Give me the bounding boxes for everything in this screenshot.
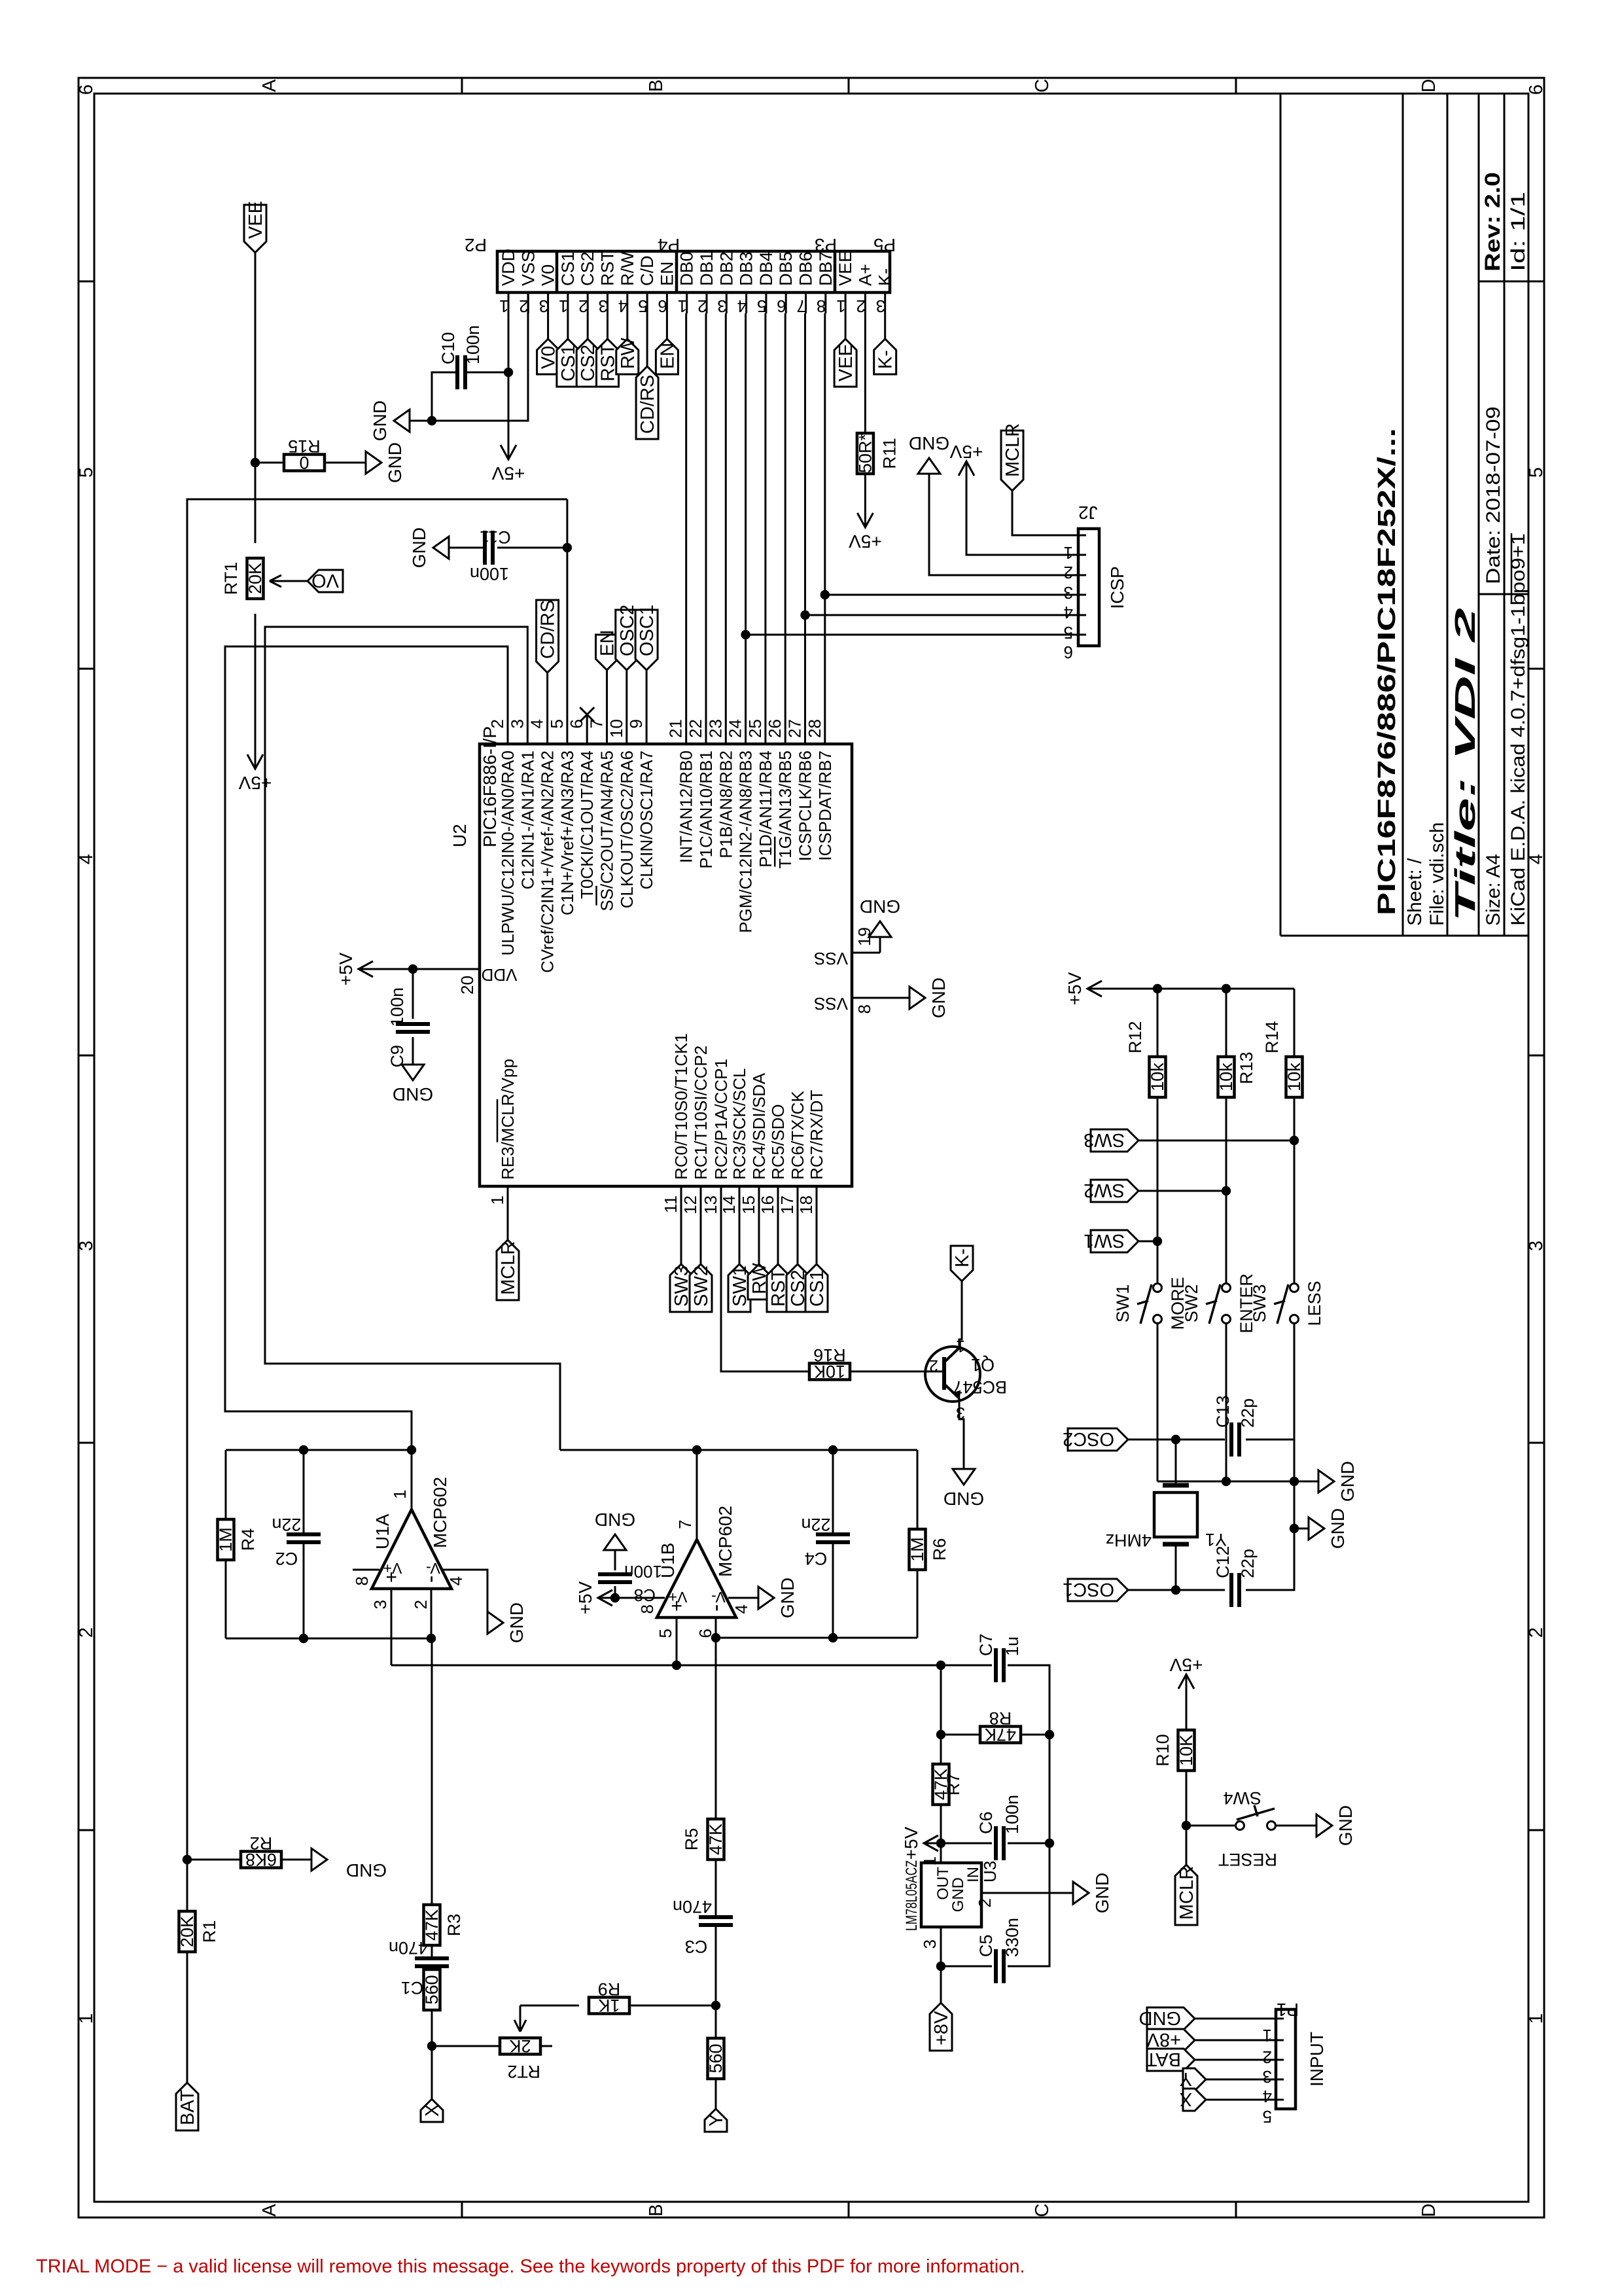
junction reset node	[1182, 1821, 1191, 1830]
resistor R11 50R*	[857, 433, 873, 474]
svg-text:C2: C2	[275, 1549, 298, 1568]
svg-text:GND: GND	[346, 1860, 387, 1881]
wire R3 to C1	[431, 1945, 433, 1957]
ground left of C9	[402, 1065, 424, 1080]
U1A pin 4 V- stub	[443, 1569, 471, 1571]
svg-text:GND: GND	[506, 1602, 527, 1643]
connector pin VDD stub	[508, 292, 510, 313]
U2 pin 11 stub	[680, 1186, 682, 1216]
junction VDD/C9	[408, 964, 417, 974]
V0 global label	[537, 339, 559, 374]
svg-text:MCLR: MCLR	[498, 1241, 519, 1295]
svg-text:SW2: SW2	[1182, 1284, 1201, 1323]
svg-text:22p: 22p	[1238, 1398, 1258, 1428]
U2 pin 28 stub	[824, 715, 826, 744]
resistor R15	[284, 455, 325, 471]
U2 pin 13 stub	[720, 1186, 722, 1216]
wire RA2 to CD/RS flag	[546, 673, 548, 715]
svg-text:1: 1	[1263, 2026, 1272, 2045]
svg-text:SW1: SW1	[1084, 1230, 1125, 1251]
junction OSC1/Y1/C12	[1171, 1585, 1180, 1595]
RW global label at U2 RC4	[748, 1264, 770, 1299]
wire junction to 560 (Y)	[715, 2005, 717, 2038]
svg-text:47K: 47K	[422, 1909, 442, 1941]
RST global label at U2 RC5	[767, 1264, 789, 1312]
svg-text:24: 24	[726, 719, 745, 738]
svg-text:Title: VDI 2: Title: VDI 2	[1449, 607, 1481, 922]
wire R5 to C3	[715, 1860, 717, 1916]
SW2 global label	[1138, 1190, 1226, 1192]
junction R8 bottom	[1045, 1730, 1054, 1739]
svg-text:2: 2	[856, 296, 865, 316]
svg-text:C4: C4	[805, 1549, 828, 1568]
CD/RS global label at U2	[537, 600, 559, 673]
RT2 wiper arrow	[514, 2005, 526, 2032]
ground above VSS stub	[394, 410, 410, 432]
svg-text:RE3/MCLR/Vpp: RE3/MCLR/Vpp	[498, 1059, 518, 1180]
svg-text:CD/RS: CD/RS	[538, 600, 559, 659]
junction VREF at divider	[936, 1661, 945, 1670]
wire C9 branch	[412, 969, 414, 1019]
svg-text:P1B/AN8/RB2: P1B/AN8/RB2	[716, 751, 735, 858]
OSC1 global label at crystal	[1068, 1579, 1128, 1601]
BAT global label	[176, 2083, 198, 2130]
svg-text:V-: V-	[711, 1589, 726, 1606]
svg-text:DB1: DB1	[697, 251, 716, 286]
svg-text:A+: A+	[855, 264, 875, 286]
title block kicad version overline	[1511, 533, 1513, 603]
wire R10 to MCLR junction	[1186, 1771, 1188, 1826]
ground stub wire at display VSS	[410, 292, 528, 421]
svg-text:GND: GND	[860, 896, 900, 917]
junction X node	[427, 2041, 436, 2051]
connector pin K- stub	[884, 292, 886, 313]
junction R12 feed	[1153, 984, 1162, 993]
wire RB3 to DB3	[745, 313, 747, 715]
svg-text:VDD: VDD	[499, 249, 518, 286]
connector pin DB6 stub	[805, 292, 807, 313]
svg-text:J2: J2	[1078, 503, 1098, 523]
svg-text:V+: V+	[383, 1560, 402, 1577]
junction C2 at minus rail	[299, 1634, 308, 1643]
U1A pin 8 V+ stub	[353, 1569, 379, 1571]
trimmer RT1 wire from junction	[255, 463, 256, 543]
Y global label at P1	[1183, 2068, 1206, 2091]
svg-text:10: 10	[607, 719, 626, 738]
CS1 global label at U2 RC7	[805, 1264, 828, 1312]
wire R11 to +5V	[864, 474, 866, 510]
svg-text:1: 1	[499, 296, 508, 316]
VEE global label (contrast)	[244, 205, 266, 253]
svg-text:K-: K-	[875, 268, 895, 286]
svg-text:EN: EN	[657, 261, 677, 286]
svg-text:4: 4	[446, 1576, 466, 1585]
RW global label	[616, 339, 639, 374]
svg-text:P1C/AN10/RB1: P1C/AN10/RB1	[696, 751, 716, 869]
SW2 wire row	[1225, 1097, 1227, 1283]
connector pin A+ stub	[864, 292, 866, 313]
svg-text:CLKIN/OSC1/RA7: CLKIN/OSC1/RA7	[637, 751, 656, 889]
resistor 560 (X)	[424, 1969, 440, 2010]
K- global label at connector	[874, 339, 896, 374]
wire C1 to 560 resistor	[431, 1966, 433, 1969]
P1 pin 3 stub	[1275, 2059, 1284, 2061]
svg-text:D: D	[1419, 2204, 1439, 2217]
SW3 global label at U2 RC0	[670, 1264, 692, 1312]
wire RC2 to R16	[721, 1216, 809, 1371]
svg-text:MCLR: MCLR	[1176, 1866, 1197, 1920]
svg-text:28: 28	[805, 719, 824, 738]
svg-text:ULPWU/C12IN0-/AN0/RA0: ULPWU/C12IN0-/AN0/RA0	[498, 751, 518, 956]
svg-text:CLKOUT/OSC2/RA6: CLKOUT/OSC2/RA6	[617, 751, 637, 908]
wire J2 pin3 to GND	[929, 474, 1078, 575]
svg-text:V+: V+	[669, 1589, 688, 1606]
svg-text:+5V: +5V	[491, 463, 525, 484]
switch SW2 ENTER	[1222, 1284, 1231, 1292]
svg-text:R16: R16	[813, 1345, 846, 1365]
wire RA6 to OSC2 flag	[626, 670, 627, 715]
svg-text:P5: P5	[873, 235, 896, 255]
svg-text:+5V: +5V	[949, 442, 983, 462]
svg-text:100n: 100n	[387, 987, 407, 1027]
svg-text:Q1: Q1	[971, 1355, 995, 1375]
svg-text:+5V: +5V	[575, 1581, 595, 1614]
svg-text:560: 560	[422, 1975, 442, 2004]
svg-text:3: 3	[1064, 583, 1073, 603]
P1 pin 5 stub	[1275, 2099, 1284, 2101]
svg-text:4: 4	[732, 1604, 751, 1614]
svg-text:R/W: R/W	[618, 251, 637, 286]
U2 pin 24 stub	[745, 715, 747, 744]
svg-text:22n: 22n	[801, 1515, 830, 1534]
junction C6 top	[936, 1839, 945, 1848]
wire R1 to BAT flag	[186, 1952, 188, 2083]
svg-text:R15: R15	[288, 436, 321, 456]
wire RA3 net riser	[187, 499, 567, 1860]
svg-text:13: 13	[701, 1195, 720, 1214]
svg-text:R1: R1	[200, 1920, 219, 1943]
junction U1A output node	[407, 1445, 416, 1455]
+5V at R11	[864, 510, 866, 527]
resistor R5 47K	[708, 1819, 724, 1860]
svg-text:U1A: U1A	[372, 1513, 393, 1549]
svg-text:C12: C12	[1213, 1545, 1233, 1578]
svg-text:4: 4	[737, 296, 747, 316]
wire X junction to RT2	[432, 2045, 500, 2047]
wire +5V to R10	[1186, 1691, 1188, 1729]
junction C11 on RA3 wire	[563, 543, 572, 552]
wire VSS19 to GND	[879, 937, 881, 953]
svg-text:DB6: DB6	[796, 251, 816, 286]
U2 pin 1 stub	[507, 1186, 509, 1216]
svg-text:VSS: VSS	[814, 994, 848, 1014]
capacitor C9 100n	[396, 1030, 430, 1034]
svg-text:C11: C11	[480, 527, 511, 547]
BAT global label at P1	[1147, 2049, 1195, 2071]
svg-text:4MHz: 4MHz	[1105, 1530, 1152, 1550]
svg-text:10k: 10k	[1284, 1063, 1304, 1091]
regulator U3 LM78L05ACZ box	[921, 1863, 981, 1927]
capacitor C10 100n	[467, 372, 508, 374]
svg-text:Size: A4: Size: A4	[1483, 854, 1504, 926]
svg-text:6: 6	[658, 296, 667, 316]
ground right of C8	[604, 1534, 626, 1550]
U2 pin 2 stub	[507, 715, 509, 744]
wire C11 to GND	[433, 547, 485, 549]
svg-text:RC7/RX/DT: RC7/RX/DT	[807, 1090, 826, 1180]
U2 pin 6 stub	[586, 715, 588, 744]
junction C5	[936, 1962, 945, 1971]
svg-text:3: 3	[1526, 1241, 1547, 1251]
junction R8 top	[936, 1730, 945, 1739]
svg-text:CS1: CS1	[807, 1270, 828, 1307]
connector pin DB5 stub	[785, 292, 787, 313]
J2 pin 6 stub	[1077, 634, 1086, 636]
junction VEE/R15/RT1	[251, 458, 260, 467]
svg-text:BAT: BAT	[177, 2089, 198, 2125]
svg-text:47K: 47K	[706, 1824, 726, 1855]
capacitor C2 22n	[303, 1542, 305, 1638]
wire R16 to Q1 base	[850, 1371, 943, 1373]
svg-text:3: 3	[920, 1939, 940, 1949]
U1B pin 7 output wire	[696, 1450, 698, 1540]
wire V0 pin to flag	[547, 313, 549, 339]
svg-text:+5V: +5V	[238, 773, 272, 793]
svg-text:A: A	[259, 79, 280, 92]
wire VDD pin to +5V	[508, 292, 510, 459]
ground for switches	[1318, 1470, 1334, 1492]
U2 pin 10 stub	[626, 715, 627, 744]
wire U1A pin4 to GND	[471, 1570, 487, 1623]
junction battery divider	[183, 1855, 192, 1864]
svg-text:C6: C6	[976, 1811, 996, 1834]
svg-text:B: B	[646, 2204, 667, 2216]
J2 pin 4 stub	[1077, 594, 1086, 596]
ground below R15	[366, 451, 381, 474]
wire VDD to +5V	[376, 968, 450, 970]
wire RB0 to DB0	[685, 313, 687, 715]
wire C3 to junction	[715, 1925, 717, 2005]
svg-text:R7: R7	[943, 1773, 963, 1796]
svg-text:3: 3	[76, 1241, 97, 1251]
switch SW3 LESS	[1290, 1284, 1299, 1292]
connector pin VSS stub	[527, 292, 529, 313]
svg-text:3: 3	[717, 296, 726, 316]
op-amp U1B triangle	[657, 1540, 736, 1617]
U2 pin 26 stub	[785, 715, 786, 744]
ground right of VSS pin19	[869, 921, 891, 937]
svg-text:D: D	[1419, 79, 1439, 93]
svg-text:DB2: DB2	[716, 251, 736, 286]
junction ICSPCLK tap on RB6	[800, 610, 809, 620]
wire RT1 to +5V	[255, 614, 256, 752]
svg-text:100n: 100n	[463, 325, 483, 364]
svg-text:C1: C1	[401, 1978, 424, 1998]
svg-text:GND: GND	[409, 527, 429, 568]
EN global label at connector	[656, 339, 678, 374]
ground above C11	[433, 537, 449, 559]
svg-text:2: 2	[697, 296, 707, 316]
svg-text:26: 26	[765, 719, 785, 738]
svg-text:3: 3	[370, 1600, 390, 1609]
svg-text:2: 2	[519, 296, 528, 316]
junction PGM tap on RB3	[741, 630, 750, 639]
svg-text:R10: R10	[1153, 1734, 1172, 1767]
svg-text:RESET: RESET	[1218, 1850, 1277, 1869]
svg-text:6: 6	[777, 296, 786, 316]
svg-text:1: 1	[678, 296, 687, 316]
resistor R2 6K8	[241, 1852, 281, 1868]
wire junction to SW4	[1186, 1825, 1235, 1827]
SW1 global label	[1138, 1241, 1157, 1243]
wire to crystal ground	[1294, 1528, 1309, 1530]
svg-text:SW1: SW1	[1113, 1284, 1133, 1323]
IC U2 box	[480, 744, 852, 1186]
PDF trial watermark text	[36, 2256, 1025, 2278]
CD/RS global label at connector	[636, 366, 658, 439]
svg-text:V0: V0	[538, 264, 558, 286]
ground below VSS pin8	[909, 987, 925, 1009]
wire RB1 to DB1	[705, 313, 707, 715]
svg-text:560: 560	[706, 2043, 726, 2073]
wire R15 to GND	[325, 462, 366, 464]
svg-text:Y: Y	[1180, 2068, 1192, 2089]
+5V above U2 VDD	[359, 968, 376, 970]
svg-text:File: vdi.sch: File: vdi.sch	[1426, 822, 1448, 926]
svg-text:C: C	[1032, 2204, 1053, 2217]
wire P1 pin1 to GND flag	[1195, 2018, 1276, 2020]
U2 pin 6 no-connect cross	[580, 707, 594, 722]
junction R13 feed	[1222, 984, 1231, 993]
trimmer RT2 2K	[500, 2038, 540, 2055]
capacitor C12 22p	[1176, 1589, 1225, 1591]
wire RC pin 18 to CS1 flag	[816, 1216, 818, 1264]
svg-text:GND: GND	[1092, 1873, 1112, 1913]
U2 pin 9 stub	[646, 715, 648, 744]
svg-text:C1N+/Vref+/AN3/RA3: C1N+/Vref+/AN3/RA3	[557, 751, 577, 915]
svg-text:100n: 100n	[470, 564, 509, 584]
capacitor C6 100n branch	[941, 1843, 992, 1845]
+5V at ICSP	[966, 461, 968, 478]
svg-text:16: 16	[758, 1195, 777, 1214]
U2 pin 22 stub	[705, 715, 707, 744]
svg-text:7: 7	[675, 1520, 695, 1529]
svg-text:14: 14	[719, 1195, 739, 1214]
svg-text:SW4: SW4	[1223, 1788, 1261, 1808]
svg-text:2: 2	[975, 1898, 995, 1907]
wire OSC2 flag to junction	[1128, 1439, 1176, 1441]
svg-text:2: 2	[929, 1356, 938, 1375]
svg-text:R13: R13	[1237, 1051, 1256, 1084]
RT1 wiper arrow	[270, 575, 308, 587]
wire R2 to GND	[281, 1859, 327, 1861]
svg-text:11: 11	[661, 1195, 680, 1213]
Y chain wire from minus rail	[715, 1638, 717, 1856]
svg-text:SS/C2OUT/AN4/RA5: SS/C2OUT/AN4/RA5	[597, 751, 617, 911]
svg-text:R11: R11	[879, 438, 899, 469]
wire RC pin 14 to SW1 flag	[739, 1216, 741, 1264]
U2 pin 7 stub	[606, 715, 608, 744]
svg-text:470n: 470n	[673, 1897, 712, 1916]
transistor Q1 BC547	[925, 1347, 980, 1402]
svg-text:4: 4	[1263, 2087, 1272, 2106]
junction ICSPDAT tap on RB7	[820, 590, 830, 599]
svg-text:1: 1	[487, 1195, 507, 1205]
svg-text:C8: C8	[634, 1585, 656, 1605]
svg-text:BC547: BC547	[953, 1377, 1007, 1397]
svg-text:8: 8	[352, 1576, 372, 1585]
Y global label	[705, 2109, 727, 2132]
U3 pin 3 IN wire	[940, 1927, 942, 2003]
svg-text:SW3: SW3	[1084, 1129, 1125, 1150]
U1A pin 2 wire	[431, 1589, 432, 1638]
junction SW3 label tap	[1290, 1136, 1299, 1145]
junction R9 at Y chain	[711, 2001, 720, 2010]
svg-text:R9: R9	[598, 1979, 621, 1999]
P1 pin 1 stub	[1275, 2018, 1284, 2020]
svg-text:B: B	[646, 79, 667, 92]
ground stub below regulator	[1049, 1892, 1073, 1894]
svg-text:GND: GND	[370, 400, 390, 441]
svg-text:CVref/C2IN1+/Vref-/AN2/RA2: CVref/C2IN1+/Vref-/AN2/RA2	[538, 751, 557, 973]
svg-text:3: 3	[539, 296, 548, 316]
svg-text:5: 5	[76, 467, 97, 478]
capacitor C11 100n branch	[497, 547, 567, 549]
svg-text:C7: C7	[976, 1633, 996, 1656]
svg-text:C3: C3	[685, 1937, 708, 1956]
svg-text:VEE: VEE	[836, 251, 855, 286]
svg-text:25: 25	[745, 719, 765, 738]
resistor R10 10K	[1178, 1730, 1195, 1771]
resistor R4 1M	[225, 1560, 227, 1638]
svg-text:1: 1	[1064, 543, 1073, 563]
svg-text:4: 4	[527, 719, 547, 728]
svg-text:6: 6	[76, 84, 97, 95]
capacitor C8 100n branch	[614, 1586, 616, 1598]
svg-text:GND: GND	[1328, 1508, 1348, 1549]
capacitor C3 470n	[699, 1923, 733, 1927]
J2 pin 1 stub	[1077, 535, 1086, 537]
CS2 global label	[576, 339, 599, 387]
svg-text:GND: GND	[385, 442, 405, 483]
U2 pin 23 stub	[725, 715, 727, 744]
svg-text:C: C	[1032, 79, 1053, 93]
svg-text:GND: GND	[1335, 1805, 1356, 1846]
svg-text:5: 5	[1064, 623, 1073, 643]
wire CS1 pin to flag	[567, 313, 569, 339]
svg-text:PIC16F886-I/P: PIC16F886-I/P	[480, 726, 500, 847]
connector pin DB4 stub	[765, 292, 767, 313]
wire P1 pin4 to Y flag	[1206, 2079, 1276, 2081]
svg-text:6: 6	[1064, 643, 1073, 662]
wire RC pin 11 to SW3 flag	[680, 1216, 682, 1264]
wire K- pin to flag	[884, 313, 886, 339]
wire RT2 wiper to R9	[520, 2005, 579, 2007]
K- global label at Q1	[951, 1246, 973, 1281]
connector pin DB2 stub	[726, 292, 728, 313]
svg-text:VEE: VEE	[245, 201, 266, 239]
svg-text:VSS: VSS	[814, 949, 848, 968]
+5V at R10	[1186, 1674, 1188, 1691]
U2 pin 14 stub	[739, 1186, 741, 1216]
wire OSC1 flag to junction	[1128, 1589, 1176, 1591]
U1A output node riser	[226, 1449, 412, 1451]
wire RB4 to DB4	[764, 313, 766, 715]
svg-text:R2: R2	[250, 1833, 273, 1853]
U2 pin 16 stub	[777, 1186, 779, 1216]
wire X junction to X flag	[431, 2046, 433, 2099]
wire RA5 to EN flag	[606, 670, 608, 715]
